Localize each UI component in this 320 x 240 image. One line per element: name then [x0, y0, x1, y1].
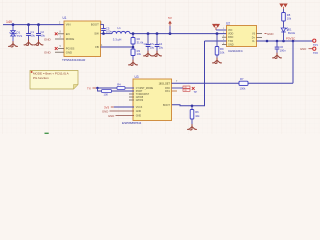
svg-text:C3: C3: [144, 42, 148, 46]
svg-text:R3: R3: [137, 49, 141, 53]
svg-text:R6: R6: [195, 110, 199, 114]
svg-text:D-: D-: [252, 40, 255, 43]
svg-text:MODE: MODE: [66, 37, 75, 41]
svg-text:GND: GND: [267, 32, 273, 36]
svg-text:EN: EN: [66, 32, 70, 36]
svg-text:10k: 10k: [195, 114, 200, 118]
svg-text:TP1: TP1: [313, 43, 318, 47]
svg-text:R7: R7: [240, 77, 244, 81]
svg-text:TP2: TP2: [313, 51, 318, 55]
svg-text:D+: D+: [252, 36, 256, 39]
svg-text:GND: GND: [44, 37, 52, 41]
svg-text:R8: R8: [287, 13, 291, 17]
svg-text:RX1: RX1: [165, 90, 170, 93]
svg-text:10k: 10k: [287, 17, 292, 21]
svg-text:BLUE: BLUE: [288, 31, 295, 35]
svg-text:ESP8685HN4: ESP8685HN4: [122, 121, 142, 125]
svg-text:BOOT: BOOT: [163, 104, 170, 107]
svg-text:1803_DET: 1803_DET: [159, 82, 171, 85]
svg-text:GPIO9: GPIO9: [136, 99, 144, 102]
svg-text:10k: 10k: [220, 51, 225, 55]
svg-text:P3V3C: P3V3C: [286, 36, 295, 40]
svg-text:3.3 μH: 3.3 μH: [113, 37, 122, 41]
svg-text:VCC3: VCC3: [136, 106, 143, 109]
svg-text:GND: GND: [108, 114, 114, 118]
svg-text:GND: GND: [102, 110, 108, 114]
svg-text:GND: GND: [136, 110, 142, 113]
svg-text:100n: 100n: [106, 30, 112, 34]
svg-text:VIO: VIO: [228, 29, 232, 32]
svg-text:U2: U2: [226, 21, 230, 25]
svg-text:10k: 10k: [137, 52, 142, 56]
svg-text:R2: R2: [137, 37, 141, 41]
svg-text:10u: 10u: [150, 46, 155, 50]
svg-text:100n: 100n: [280, 48, 286, 52]
svg-text:R9: R9: [220, 47, 224, 51]
svg-text:VDD: VDD: [228, 33, 233, 36]
svg-text:GND: GND: [228, 44, 234, 47]
svg-text:14V: 14V: [6, 20, 13, 24]
svg-text:R4: R4: [117, 83, 121, 87]
svg-text:L1: L1: [118, 26, 122, 30]
svg-text:GND: GND: [44, 51, 52, 55]
svg-text:U3: U3: [135, 75, 139, 79]
svg-text:TP: TP: [194, 90, 198, 94]
svg-text:C6: C6: [280, 45, 284, 49]
svg-text:PG function: PG function: [33, 76, 49, 80]
svg-text:10u: 10u: [159, 46, 164, 50]
svg-text:10u: 10u: [30, 34, 35, 38]
svg-text:VIN: VIN: [66, 23, 71, 27]
svg-text:TVS: TVS: [17, 34, 23, 38]
svg-text:GND: GND: [136, 114, 142, 117]
svg-text:47u: 47u: [150, 42, 155, 46]
svg-text:CH9102F4: CH9102F4: [228, 49, 243, 53]
svg-text:BOOT: BOOT: [91, 23, 99, 27]
svg-text:FB: FB: [95, 45, 99, 49]
svg-text:GND: GND: [300, 47, 306, 51]
svg-text:RXD: RXD: [228, 36, 233, 39]
svg-text:D1: D1: [288, 27, 292, 31]
svg-text:SW: SW: [94, 32, 99, 36]
svg-text:5V: 5V: [168, 16, 172, 20]
svg-text:TX: TX: [87, 86, 91, 90]
svg-text:GND: GND: [66, 50, 72, 54]
svg-text:C4: C4: [159, 42, 163, 46]
svg-text:TPS54331DDAR: TPS54331DDAR: [62, 58, 86, 62]
svg-text:100k: 100k: [240, 87, 246, 91]
svg-text:TXD: TXD: [228, 40, 233, 43]
svg-text:U1: U1: [63, 16, 67, 20]
svg-text:100: 100: [104, 93, 109, 97]
